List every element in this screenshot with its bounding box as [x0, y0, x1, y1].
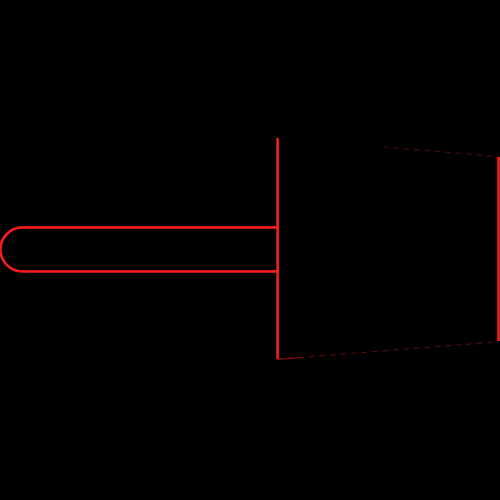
cylinder bottom silhouette line (faint dashed): [278, 342, 499, 359]
cylinder top silhouette line (faint, fades in to the right): [278, 138, 499, 157]
cylinder far-face edge (right vertical line): [497, 157, 500, 341]
shaft pill outline (rounded-end cylinder, side view): [0, 227, 277, 271]
cylinder near-face edge (tall vertical line): [276, 138, 279, 359]
bevel notch at top of near-face edge: [278, 137, 280, 140]
bottom silhouette solid start streak: [279, 357, 301, 359]
